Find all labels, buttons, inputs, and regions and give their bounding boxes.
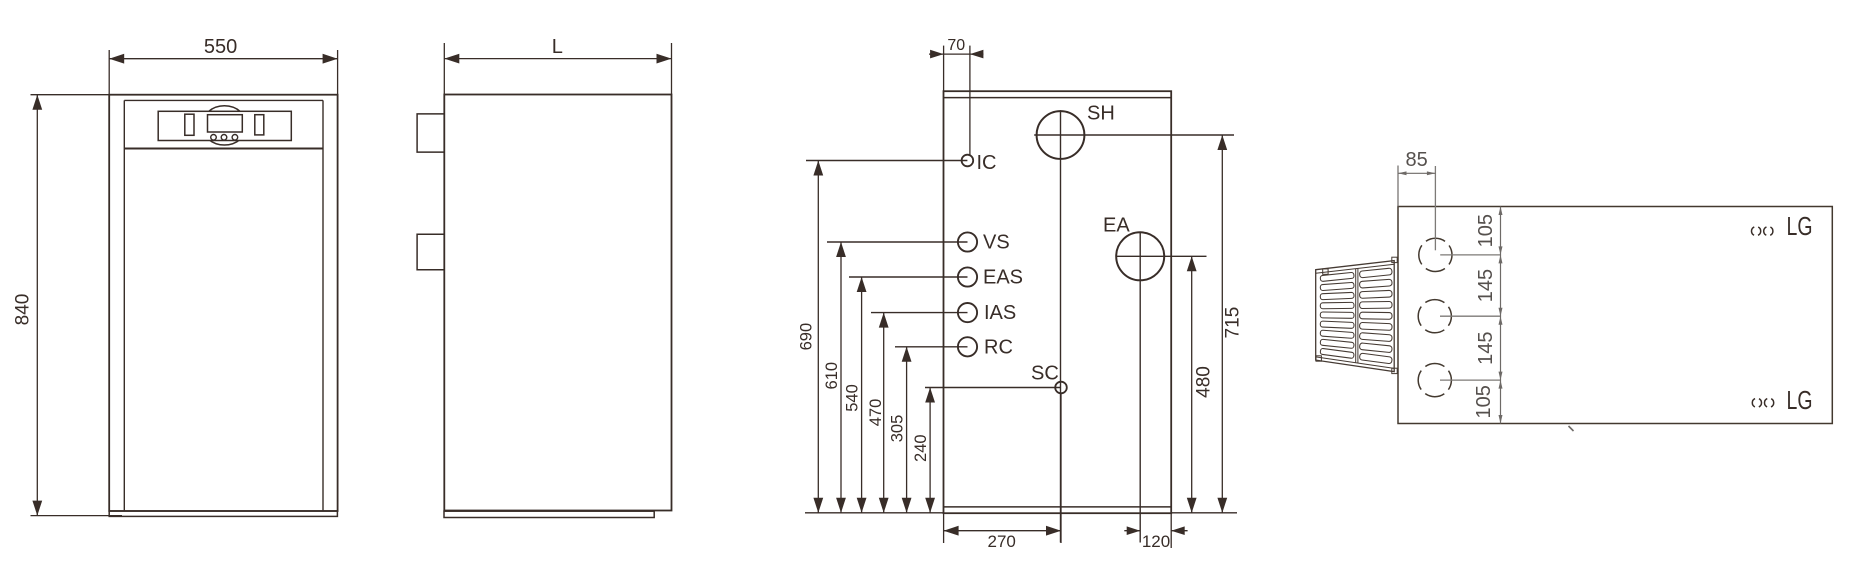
svg-text:610: 610 — [823, 362, 841, 390]
svg-text:715: 715 — [1222, 307, 1243, 339]
top view: hole 2 centre line — [1440, 315, 1501, 317]
svg-text:EA: EA — [1103, 215, 1130, 237]
svg-text:105: 105 — [1475, 214, 1497, 247]
dim 480: dimension line with arrows — [1187, 256, 1197, 513]
dim 550: dimension line with arrows — [109, 54, 337, 64]
dim 70: extension line left — [943, 46, 945, 92]
dim 610: label — [823, 362, 841, 390]
dim 305: dimension line with arrows — [902, 347, 912, 513]
port EA: leader line — [1116, 255, 1207, 257]
dim 120: extension lines — [1170, 513, 1172, 548]
front view: base plate — [109, 511, 337, 516]
port SH: circle — [1037, 111, 1085, 159]
dim 105 top: label — [1475, 214, 1497, 247]
side view: cabinet outline — [444, 95, 671, 511]
svg-text:840: 840 — [13, 294, 34, 326]
LG logo bottom: mark — [1752, 398, 1773, 407]
dim 145 upper: label — [1475, 269, 1497, 302]
port RC: label — [984, 336, 1013, 358]
dim 85: dimension line with arrows — [1398, 171, 1435, 175]
front view: right button — [255, 115, 264, 135]
back view: cabinet outline — [944, 91, 1172, 513]
dim 610: dimension line with arrows — [836, 242, 846, 513]
port RC: circle — [958, 337, 977, 356]
dim 690: dimension line with arrows — [813, 161, 823, 513]
dim 145 lower: label — [1475, 332, 1497, 365]
dim 715: label — [1222, 307, 1243, 339]
front view: top band inner line — [124, 99, 323, 101]
svg-text:305: 305 — [889, 415, 907, 443]
port IC: circle — [962, 155, 974, 167]
dim 270: label — [988, 532, 1016, 551]
dim 470: label — [867, 399, 885, 427]
dim 715: dimension line with arrows — [1217, 135, 1227, 513]
port VS: circle — [958, 232, 977, 251]
port IC: leader line — [806, 160, 967, 162]
port SH: vertical centre line — [1060, 110, 1062, 542]
port SC: leader line — [925, 387, 1061, 389]
svg-text:270: 270 — [988, 532, 1016, 551]
svg-text:540: 540 — [844, 384, 862, 412]
dim 70: label — [947, 37, 965, 54]
front view: left button — [185, 114, 194, 135]
back view: bottom extension baseline right — [1171, 512, 1237, 514]
back view: top band line — [944, 97, 1172, 99]
dim 840: extension lines — [31, 95, 123, 516]
LG logo top: text — [1787, 211, 1813, 241]
front view: LCD display window — [208, 115, 243, 132]
side view: lower rear tab — [417, 234, 444, 270]
port EAS: label — [983, 267, 1023, 289]
top view: hole 1 crosshair — [1435, 166, 1501, 255]
dim 70: dimension line with outside arrows — [929, 50, 984, 59]
svg-text:690: 690 — [797, 323, 815, 351]
svg-text:RC: RC — [984, 336, 1013, 358]
port IC: vertical extension to 70 dim — [969, 46, 971, 155]
back view: bottom extension baseline left — [805, 512, 944, 514]
dim 240: label — [912, 434, 930, 462]
svg-text:120: 120 — [1142, 532, 1170, 551]
front view: control panel rectangle — [158, 111, 291, 140]
dim 690: label — [797, 323, 815, 351]
port IAS: leader line — [871, 312, 968, 314]
svg-text:SC: SC — [1031, 363, 1059, 385]
dim 540: label — [844, 384, 862, 412]
dim 270: extension lines — [944, 393, 1061, 543]
port VS: leader line — [827, 241, 968, 243]
svg-text:SH: SH — [1087, 103, 1115, 125]
top view: louvred grille — [1316, 257, 1398, 373]
side view: base plate — [444, 511, 654, 517]
port RC: leader line — [895, 346, 968, 348]
port IAS: circle — [958, 303, 977, 322]
dim L: label — [552, 36, 563, 58]
top view: hole circle 1 (dashed) — [1419, 238, 1452, 271]
LG logo bottom: text — [1787, 385, 1813, 415]
svg-text:LG: LG — [1787, 385, 1813, 415]
front view: control panel bulge ellipse — [202, 106, 247, 145]
svg-text:480: 480 — [1194, 366, 1215, 398]
dim 550: extension lines — [109, 50, 337, 95]
dim 480: label — [1194, 366, 1215, 398]
port SC: label — [1031, 363, 1059, 385]
svg-text:105: 105 — [1473, 385, 1495, 418]
dim 470: dimension line with arrows — [879, 313, 889, 513]
svg-text:145: 145 — [1475, 269, 1497, 302]
front view: cabinet outline — [109, 95, 337, 511]
port SH: leader line — [1034, 134, 1234, 136]
svg-text:LG: LG — [1787, 211, 1813, 241]
port EAS: circle — [958, 267, 977, 286]
svg-text:240: 240 — [912, 434, 930, 462]
dim 120: dimension line with outside arrows — [1124, 526, 1187, 535]
port EA: vertical centre line — [1139, 232, 1141, 542]
front view: three round buttons — [211, 135, 238, 141]
top view: hole circle 3 (dashed) — [1418, 364, 1451, 397]
stray tick mark — [1569, 426, 1574, 431]
LG logo top: mark — [1752, 227, 1773, 236]
svg-text:85: 85 — [1405, 149, 1427, 171]
front view: right inner panel line — [322, 100, 324, 511]
svg-text:EAS: EAS — [983, 267, 1023, 289]
port VS: label — [983, 232, 1010, 254]
svg-text:IAS: IAS — [984, 302, 1016, 324]
side view: upper rear tab — [417, 114, 444, 152]
port EA: label — [1103, 215, 1130, 237]
port IAS: label — [984, 302, 1016, 324]
dim 550: label — [204, 36, 237, 58]
svg-text:145: 145 — [1475, 332, 1497, 365]
dim L: dimension line with arrows — [444, 54, 671, 64]
svg-text:470: 470 — [867, 399, 885, 427]
top view: cabinet outline — [1398, 207, 1832, 424]
dim L: extension lines — [444, 43, 671, 95]
back view: bottom band line — [944, 506, 1172, 508]
dim 270: dimension line with arrows — [944, 526, 1061, 536]
svg-text:VS: VS — [983, 232, 1010, 254]
port IC: label — [977, 152, 997, 174]
svg-text:70: 70 — [947, 37, 965, 54]
svg-text:L: L — [552, 36, 563, 58]
dim 105 bottom: label — [1473, 385, 1495, 418]
dim 840: dimension line with arrows — [32, 95, 42, 516]
port SH: label — [1087, 103, 1115, 125]
front view: left inner panel line — [123, 100, 125, 511]
dim 840: label — [13, 294, 34, 326]
dim 85: extension line — [1397, 166, 1399, 207]
top view: hole circle 2 (dashed) — [1418, 300, 1451, 333]
dim 240: dimension line with arrows — [925, 388, 935, 513]
dim 120: label — [1142, 532, 1170, 551]
svg-text:550: 550 — [204, 36, 237, 58]
dim chain 105-145-145-105: lines and arrows — [1499, 207, 1503, 424]
dim 85: label — [1405, 149, 1427, 171]
front view: line below control band — [124, 148, 323, 150]
dim 305: label — [889, 415, 907, 443]
port EA: circle — [1116, 232, 1164, 280]
port EAS: leader line — [849, 276, 968, 278]
dim 540: dimension line with arrows — [857, 277, 867, 513]
svg-text:IC: IC — [977, 152, 997, 174]
port SC: circle — [1055, 382, 1067, 394]
top view: hole 3 centre line — [1440, 379, 1501, 381]
